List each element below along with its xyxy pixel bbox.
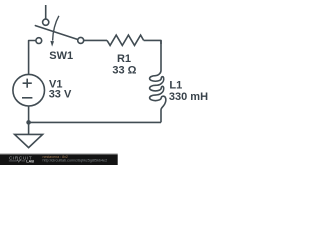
svg-text:R1: R1 [117,53,131,65]
watermark bar [0,154,118,165]
inductor L1 [150,40,166,122]
watermark logo LAB [9,160,25,162]
wire: top-left from corner to V1 top [29,41,36,75]
switch SW1 [35,5,83,47]
svg-text:L1: L1 [169,79,182,91]
wire: resistor to top-right corner and down [144,40,161,44]
wire: switch B to resistor [84,39,107,41]
voltage source V1 [13,74,45,106]
wire: bottom rail [29,121,161,123]
wire: V1 bottom to bottom rail [28,106,30,122]
resistor R1 [107,35,144,45]
svg-text:http:ǀǀcircuitlab.com/c/6qhkz5: http:ǀǀcircuitlab.com/c/6qhkz5g8t5kb4e2 [43,158,108,162]
junction node [26,120,31,125]
svg-text:33 Ω: 33 Ω [112,65,136,77]
svg-text:33 V: 33 V [49,89,72,101]
svg-text:SW1: SW1 [49,50,73,62]
svg-text:LAB: LAB [26,160,34,164]
ground [15,122,43,147]
svg-text:330 mH: 330 mH [169,91,208,103]
